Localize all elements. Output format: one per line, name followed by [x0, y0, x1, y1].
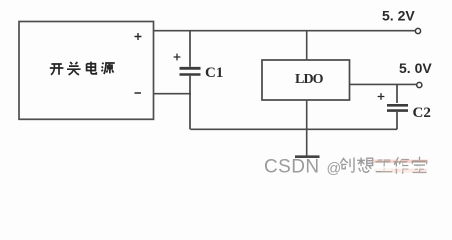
svg-text:C1: C1 — [205, 65, 223, 81]
LDO box U1 — [262, 60, 350, 100]
5.2V terminal — [415, 28, 420, 33]
watermark char 创 — [341, 158, 354, 172]
wire top bus from + to 5.2V terminal — [154, 30, 416, 32]
svg-text:5. 0V: 5. 0V — [399, 60, 432, 76]
minus terminal of power supply — [135, 92, 142, 94]
capacitor C1 — [180, 31, 201, 130]
5.0V terminal — [417, 82, 422, 87]
power supply box — [19, 22, 154, 120]
watermark char 想 — [358, 158, 373, 172]
plus terminal of power supply — [135, 33, 142, 40]
C1 polarity plus — [174, 54, 181, 61]
svg-text:C2: C2 — [413, 105, 431, 121]
watermark CSDN @ — [264, 157, 341, 178]
ground symbol — [295, 155, 320, 158]
svg-text:5. 2V: 5. 2V — [382, 7, 415, 23]
svg-text:CSDN: CSDN — [264, 157, 319, 178]
wire minus to C1 — [154, 93, 191, 95]
watermark char 工 — [376, 160, 392, 172]
label 开关电源 — [50, 62, 115, 75]
capacitor C2 — [387, 84, 408, 129]
wire LDO ground pin — [306, 100, 308, 156]
wire LDO output — [350, 83, 417, 85]
svg-text:LDO: LDO — [295, 72, 324, 87]
wire LDO input pin — [306, 31, 308, 60]
watermark char 作 — [394, 158, 408, 173]
watermark char 室 — [412, 157, 426, 172]
watermark emboss 工作室 — [373, 158, 429, 173]
svg-text:@: @ — [327, 161, 342, 177]
bottom bus wire — [190, 128, 397, 130]
C2 polarity plus — [378, 93, 385, 100]
